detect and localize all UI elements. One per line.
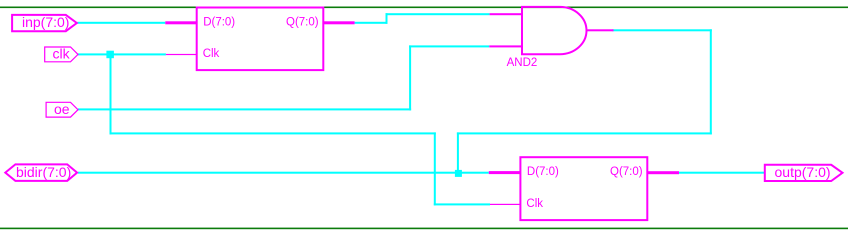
svg-text:D(7:0): D(7:0) xyxy=(527,166,559,178)
wire AND2 output vertical x710 xyxy=(710,29,712,134)
sheet border bottom xyxy=(0,228,848,230)
svg-text:outp(7:0): outp(7:0) xyxy=(775,164,831,180)
svg-text:Clk: Clk xyxy=(526,198,543,210)
junction on clk net xyxy=(106,51,114,59)
bus stub Q pin register XLXI_2 xyxy=(647,171,679,174)
pin stub Clk register XLXI_1 xyxy=(166,54,197,55)
register U1 body xyxy=(197,8,324,71)
pin stub AND2 output xyxy=(586,29,614,31)
wire Q1 horizontal xyxy=(355,22,388,24)
svg-text:Q(7:0): Q(7:0) xyxy=(610,166,643,178)
wire Q2 to outp xyxy=(679,172,765,174)
wire oe to AND2 input y46 xyxy=(409,45,489,47)
svg-text:D(7:0): D(7:0) xyxy=(203,16,235,28)
wire clk horizontal run y133 xyxy=(110,132,436,134)
bus stub Q pin register XLXI_1 xyxy=(323,21,354,24)
input port oe xyxy=(46,102,78,117)
wire Q1 vertical riser x386 xyxy=(386,13,388,24)
input port clk xyxy=(45,47,78,62)
sheet border top xyxy=(0,7,848,9)
wire oe vertical riser x410 xyxy=(409,45,411,110)
wire oe horizontal xyxy=(78,108,411,110)
wire Q1 to AND2 input y14 xyxy=(386,13,490,15)
wire clk to XLXI_2 Clk y204 xyxy=(434,203,490,205)
svg-text:AND2: AND2 xyxy=(507,57,538,69)
pin stub AND2 input 1 xyxy=(490,13,522,15)
svg-text:inp(7:0): inp(7:0) xyxy=(22,14,69,30)
bus stub D pin register XLXI_1 xyxy=(165,21,196,24)
wire AND2 output vertical drop x458 xyxy=(457,132,459,170)
wire bidir to XLXI_2 D xyxy=(78,172,489,174)
bidirectional port bidir(7:0) xyxy=(5,164,77,181)
wire clk vertical drop xyxy=(110,54,112,134)
junction on bidir net xyxy=(455,170,462,177)
wire clk vertical drop x434 xyxy=(434,132,436,205)
AND2 gate body xyxy=(522,7,587,54)
wire inp to XLXI_1 D xyxy=(77,22,165,24)
input port inp(7:0) xyxy=(12,15,77,31)
wire clk to XLXI_1 Clk xyxy=(78,53,166,55)
output port outp(7:0) xyxy=(765,165,843,181)
svg-text:clk: clk xyxy=(53,46,71,62)
svg-text:oe: oe xyxy=(54,101,70,117)
svg-text:bidir(7:0): bidir(7:0) xyxy=(16,164,71,180)
bus stub D pin register XLXI_2 xyxy=(489,171,521,174)
wire AND2 output horizontal y133 xyxy=(457,132,712,134)
svg-text:Clk: Clk xyxy=(203,48,220,60)
wire AND2 output horizontal xyxy=(612,29,712,31)
register U2 body xyxy=(520,157,647,220)
pin stub Clk register XLXI_2 xyxy=(490,204,520,205)
svg-text:Q(7:0): Q(7:0) xyxy=(286,16,319,28)
pin stub AND2 input 2 xyxy=(489,45,522,47)
